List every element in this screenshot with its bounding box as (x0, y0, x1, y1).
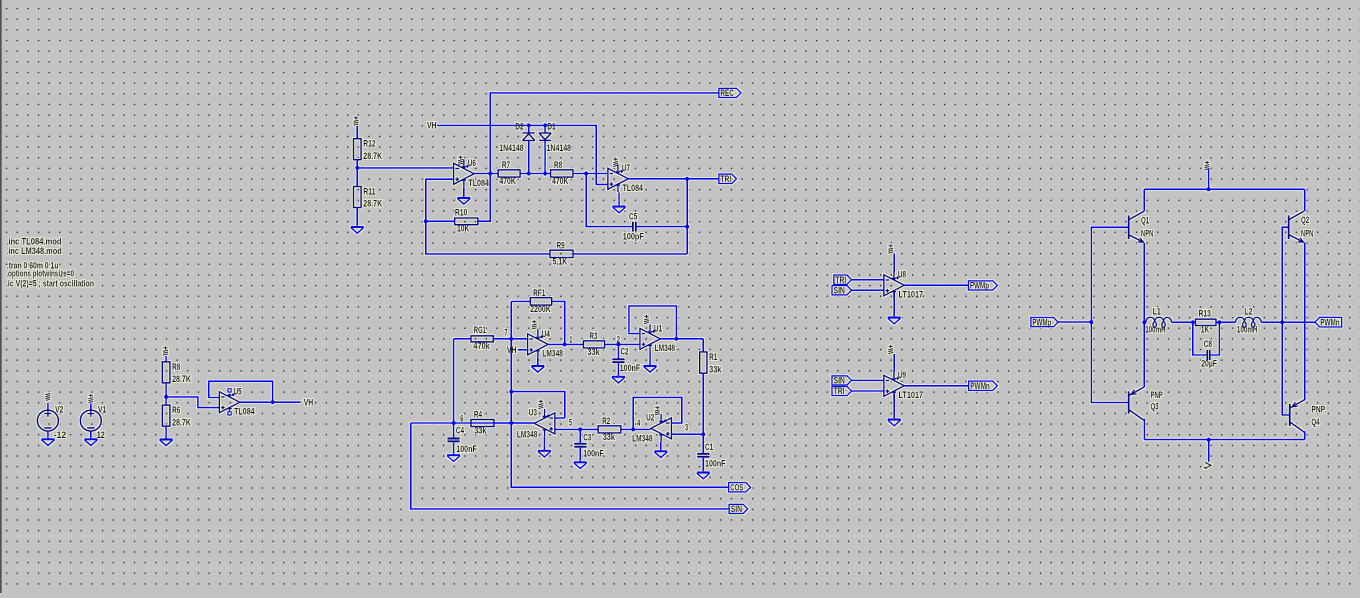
port flag REC (719, 88, 741, 98)
svg-text:R8: R8 (172, 362, 180, 372)
transistor Q3 (PNP) (1129, 387, 1145, 420)
wire (357, 167, 453, 169)
wire (633, 397, 682, 429)
wire (47, 431, 49, 438)
capacitor C2 (612, 347, 640, 373)
junction (578, 427, 582, 431)
wire (543, 437, 545, 450)
resistor R4 (471, 409, 494, 435)
wire (1143, 189, 1145, 211)
wire (437, 125, 608, 184)
svg-text:NPN: NPN (1141, 229, 1153, 239)
wire (629, 306, 677, 339)
wire (636, 226, 687, 228)
wire (1208, 440, 1210, 462)
svg-text:U5: U5 (234, 387, 242, 397)
junction (452, 421, 456, 425)
junction (1142, 320, 1146, 324)
junction (1089, 320, 1093, 324)
svg-text:LM348: LM348 (632, 433, 653, 443)
ground (351, 226, 364, 234)
wire (90, 431, 92, 438)
wire (165, 426, 167, 438)
svg-text:L1: L1 (1153, 307, 1161, 317)
wire (1193, 322, 1207, 355)
resistor R8b (551, 160, 573, 186)
svg-text:R8: R8 (554, 160, 562, 170)
svg-text:LT1017: LT1017 (899, 390, 924, 400)
V- power flag (1204, 462, 1211, 469)
svg-text:C3: C3 (583, 432, 591, 442)
junction (1280, 320, 1284, 324)
svg-text:PNP: PNP (1151, 390, 1163, 400)
junction (543, 171, 547, 175)
svg-text:28.7K: 28.7K (172, 374, 191, 384)
svg-text:100nF: 100nF (705, 458, 726, 468)
junction (701, 432, 705, 436)
wire (528, 125, 530, 133)
wire (1304, 431, 1306, 440)
wire (90, 403, 92, 410)
op-amp U3 (534, 409, 555, 437)
wire (356, 208, 358, 226)
wire (544, 141, 546, 174)
svg-text:100nF: 100nF (583, 448, 604, 458)
wire (426, 221, 550, 254)
wire (1143, 243, 1145, 388)
V+ power flag (1205, 161, 1210, 170)
ground (538, 449, 551, 457)
svg-text:C5: C5 (629, 212, 637, 222)
wire (586, 174, 633, 227)
svg-text:D1: D1 (547, 121, 555, 131)
svg-text:REC: REC (720, 88, 734, 98)
wire (893, 394, 895, 419)
svg-text:470K: 470K (552, 176, 569, 186)
wire (649, 352, 651, 364)
wire (494, 422, 511, 424)
svg-text:L2: L2 (1244, 307, 1252, 317)
wire (660, 338, 703, 340)
wire (47, 403, 49, 411)
svg-text:R10: R10 (455, 208, 467, 218)
junction (1207, 438, 1211, 442)
svg-text:28.7K: 28.7K (363, 151, 382, 161)
V+ power flag (538, 400, 543, 409)
svg-text:R7: R7 (502, 160, 510, 170)
op-amp U5 (219, 392, 240, 413)
svg-text:U7: U7 (622, 163, 630, 173)
wire (904, 284, 968, 286)
wire (474, 173, 498, 175)
svg-text:COS: COS (730, 482, 743, 492)
wire (166, 397, 219, 408)
wire (573, 253, 687, 255)
wire (544, 125, 546, 133)
svg-text:1: 1 (569, 334, 572, 344)
svg-text:U4: U4 (542, 329, 550, 339)
svg-text:R2: R2 (602, 416, 610, 426)
wire (702, 339, 704, 352)
ground (160, 438, 173, 446)
wire (893, 254, 895, 272)
svg-text:33k: 33k (603, 432, 616, 442)
capacitor C5 (623, 212, 644, 242)
svg-text:VH: VH (427, 120, 437, 130)
wire (478, 93, 719, 221)
junction (527, 171, 531, 175)
op-amp U1 (640, 324, 661, 352)
svg-text:C4: C4 (456, 426, 464, 436)
svg-text:.options plotwinsize=0: .options plotwinsize=0 (6, 269, 74, 279)
svg-text:TL084: TL084 (623, 183, 644, 193)
junction (355, 166, 359, 170)
svg-text:.inc LM348.mod: .inc LM348.mod (6, 246, 62, 256)
svg-text:.inc TL084.mod: .inc TL084.mod (6, 237, 61, 247)
svg-text:28.7K: 28.7K (172, 417, 191, 427)
junction (509, 390, 513, 394)
window edge (0, 0, 2, 593)
resistor R13 (1196, 309, 1217, 335)
svg-text:R1: R1 (709, 352, 717, 362)
wire (852, 379, 884, 381)
wire (573, 173, 608, 175)
V+ power flag (458, 156, 463, 165)
svg-text:.ic V(2)=5 ; start oscillation: .ic V(2)=5 ; start oscillation (6, 278, 94, 288)
port flag PWMp (1031, 317, 1058, 327)
junction (1191, 320, 1195, 324)
diode D1 1N4148 (539, 133, 551, 140)
wire (537, 329, 539, 330)
svg-text:C1: C1 (705, 442, 713, 452)
ground (574, 461, 587, 469)
wire (621, 428, 651, 430)
wire (426, 220, 455, 222)
svg-text:PWMp: PWMp (1032, 317, 1051, 327)
svg-text:U8: U8 (898, 270, 906, 280)
svg-text:V1: V1 (98, 404, 106, 414)
svg-text:RF1: RF1 (533, 288, 545, 298)
wire (1208, 169, 1210, 190)
port flag SIN (832, 285, 852, 295)
svg-text:TRI: TRI (835, 275, 846, 285)
svg-text:PWMn: PWMn (1320, 317, 1340, 327)
resistor R11 (354, 187, 383, 209)
op-amp U2 (651, 414, 672, 442)
resistor R8 (162, 362, 191, 384)
junction (631, 427, 635, 431)
wire (671, 433, 703, 435)
svg-text:2200K: 2200K (530, 304, 551, 314)
resistor R2 (598, 416, 621, 442)
op-amp U4 (528, 330, 549, 358)
wire (893, 293, 895, 316)
wire (453, 423, 455, 438)
svg-text:1N4148: 1N4148 (499, 143, 524, 153)
resistor R3 (583, 331, 604, 357)
V+ power flag (888, 345, 893, 354)
wire (1216, 321, 1236, 323)
svg-text:5,1K: 5,1K (553, 256, 568, 266)
port flag PWMn (969, 381, 998, 391)
svg-text:R4: R4 (474, 409, 482, 419)
wire (555, 428, 598, 430)
wire (454, 338, 471, 340)
svg-text:PWMp: PWMp (970, 281, 989, 291)
svg-text:33k: 33k (474, 425, 487, 435)
junction (685, 225, 689, 229)
svg-text:VH: VH (507, 345, 517, 355)
wire (605, 343, 640, 345)
ground (644, 365, 657, 373)
svg-text:20µF: 20µF (1201, 358, 1217, 368)
svg-text:SIN: SIN (731, 504, 742, 514)
wire (1304, 189, 1306, 211)
svg-text:10K: 10K (457, 224, 470, 234)
svg-text:PNP.: PNP. (1311, 405, 1326, 415)
V+ power flag (88, 394, 93, 403)
ground (531, 365, 544, 373)
V+ power flag (888, 244, 893, 253)
V- power flag (45, 393, 50, 400)
wire (1091, 227, 1128, 402)
ground (447, 454, 460, 462)
wire (548, 343, 583, 345)
wire (618, 193, 620, 206)
svg-text:2: 2 (617, 334, 620, 344)
svg-text:Q3: Q3 (1151, 402, 1159, 412)
wire (1144, 439, 1304, 441)
wire (1172, 321, 1196, 323)
wire (356, 126, 358, 139)
wire (904, 385, 968, 387)
V+ power flag (532, 320, 537, 329)
ground (697, 471, 710, 479)
svg-text:TL084: TL084 (468, 178, 489, 188)
port flag TRI (832, 386, 852, 396)
wire (1144, 188, 1304, 190)
svg-text:LT1017: LT1017 (899, 289, 924, 299)
voltage source V1 (80, 410, 101, 431)
ground (613, 205, 626, 213)
junction (488, 171, 492, 175)
ground (84, 438, 97, 446)
op-amp U6 (454, 159, 475, 187)
svg-text:33k: 33k (587, 347, 600, 357)
wire (617, 363, 619, 375)
op-amp U8 (884, 271, 905, 299)
svg-text:100mH: 100mH (1237, 324, 1258, 334)
inductor L2 (1236, 317, 1262, 327)
port flag TRI (719, 174, 737, 184)
resistor R9 (550, 240, 573, 266)
svg-text:100nF: 100nF (456, 444, 477, 454)
svg-text:1K: 1K (1201, 325, 1210, 335)
inductor L1 (1146, 317, 1172, 327)
svg-text:Q2: Q2 (1301, 215, 1309, 225)
junction (685, 177, 689, 181)
ground (654, 450, 667, 458)
svg-text:R3: R3 (589, 331, 597, 341)
junction (616, 342, 620, 346)
svg-text:33k: 33k (709, 364, 722, 374)
resistor R6 (162, 405, 191, 427)
resistor R1 (700, 352, 723, 375)
wire (518, 349, 528, 351)
wire (511, 300, 530, 302)
wire (552, 301, 565, 344)
wire (852, 289, 884, 291)
resistor R12 (354, 139, 383, 161)
port flag TRI (834, 275, 852, 285)
wire (520, 173, 551, 175)
V+ power flag (354, 116, 359, 125)
svg-text:470K: 470K (499, 176, 516, 186)
wire (165, 383, 167, 405)
wire (240, 401, 301, 403)
V+ power flag (163, 346, 168, 355)
svg-text:U2: U2 (646, 413, 654, 423)
V+ power flag (655, 406, 660, 415)
transistor Q2 (NPN) (1289, 211, 1305, 242)
svg-text:-12: -12 (54, 430, 66, 440)
port flag PWMp (968, 281, 997, 291)
junction (1217, 320, 1221, 324)
svg-text:SIN: SIN (834, 376, 845, 386)
wire (1211, 322, 1220, 355)
svg-text:LM348: LM348 (517, 430, 538, 440)
wire (579, 448, 581, 461)
wire (893, 354, 895, 372)
wire (579, 429, 581, 443)
svg-text:C2: C2 (620, 347, 628, 357)
svg-text:LM348: LM348 (655, 343, 676, 353)
svg-text:1N4148: 1N4148 (547, 143, 572, 153)
wire (852, 390, 884, 392)
port flag SIN (832, 376, 852, 386)
junction (164, 395, 168, 399)
wire (1261, 321, 1315, 323)
svg-text:U9: U9 (898, 370, 906, 380)
ground (888, 418, 901, 426)
resistor RF1 (530, 288, 551, 314)
resistor R7 (498, 160, 520, 186)
resistor R10 (455, 208, 478, 234)
op-amp U9 (884, 371, 905, 399)
capacitor C4 (447, 426, 477, 455)
diode D2 1N4148 (523, 133, 535, 141)
svg-text:SIN: SIN (834, 285, 845, 295)
junction (509, 337, 513, 341)
svg-text:U3: U3 (529, 408, 537, 418)
transistor Q1 (NPN) (1129, 211, 1145, 242)
capacitor C3 (574, 432, 604, 458)
port flag PWMn (1315, 317, 1342, 327)
wire (453, 442, 455, 454)
wire (528, 141, 530, 174)
junction (674, 337, 678, 341)
junction (1207, 187, 1211, 191)
svg-text:12: 12 (97, 430, 105, 440)
wire (165, 356, 167, 362)
wire (209, 381, 273, 402)
wire (411, 422, 534, 424)
svg-text:Q1: Q1 (1141, 215, 1149, 225)
svg-text:R9: R9 (557, 240, 565, 250)
wire (1304, 243, 1306, 400)
svg-text:R11: R11 (363, 187, 375, 197)
junction (584, 171, 588, 175)
svg-text:NPN: NPN (1301, 228, 1313, 238)
ground (41, 438, 54, 446)
svg-text:TRI: TRI (720, 174, 731, 184)
wire (1058, 321, 1091, 323)
junction (527, 123, 531, 127)
wire (617, 344, 619, 358)
svg-text:5: 5 (569, 418, 572, 428)
svg-text:100pF: 100pF (623, 232, 644, 242)
svg-text:Q4: Q4 (1311, 417, 1319, 427)
capacitor C8 (1201, 339, 1217, 368)
wire (537, 358, 539, 365)
wire (702, 458, 704, 472)
wire (1282, 227, 1289, 415)
resistor RG1 (471, 325, 493, 351)
wire (628, 178, 719, 180)
svg-text:3: 3 (685, 423, 688, 433)
svg-text:LM348: LM348 (542, 349, 563, 359)
wire (1143, 419, 1145, 440)
svg-text:470k: 470k (473, 341, 490, 351)
wire (411, 423, 730, 509)
wire (511, 422, 534, 424)
svg-text:RG1: RG1 (474, 325, 486, 335)
junction (509, 421, 513, 425)
ground (612, 375, 625, 383)
svg-text:100mH: 100mH (1145, 324, 1166, 334)
svg-text:R6: R6 (172, 405, 180, 415)
svg-text:TRI: TRI (834, 386, 845, 396)
svg-text:28.7K: 28.7K (363, 199, 382, 209)
ground (457, 197, 470, 205)
transistor Q4 (PNP) (1290, 399, 1306, 432)
wire (356, 160, 358, 187)
wire (660, 442, 662, 450)
wire (493, 338, 527, 340)
V+ power flag (644, 315, 649, 324)
wire (702, 373, 704, 454)
port flag COS (729, 482, 751, 492)
svg-text:TL084: TL084 (234, 406, 255, 416)
svg-text:U1: U1 (654, 323, 662, 333)
svg-text:R13: R13 (1199, 309, 1211, 319)
wire (511, 392, 565, 419)
svg-text:D2: D2 (515, 121, 523, 131)
V+ power flag (613, 158, 618, 167)
wire (852, 279, 884, 281)
voltage source V2 (37, 410, 58, 431)
wire (511, 301, 728, 487)
svg-text:V2: V2 (55, 404, 63, 414)
capacitor C1 (697, 442, 726, 469)
port flag SIN (729, 504, 748, 514)
ground (888, 316, 901, 324)
wire (426, 179, 454, 221)
svg-text:R12: R12 (363, 139, 375, 149)
svg-text:PWMn: PWMn (970, 381, 990, 391)
svg-text:100nF: 100nF (620, 363, 641, 373)
svg-text:C8: C8 (1204, 339, 1212, 349)
